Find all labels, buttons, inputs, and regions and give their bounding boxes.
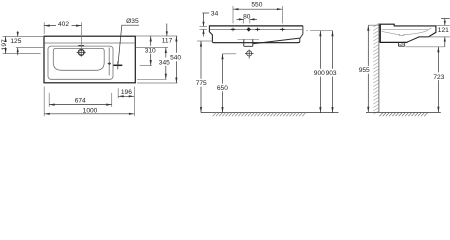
drain extension line up (80, 22, 82, 49)
basin right inner wall line (108, 48, 110, 76)
ext line 723 top (406, 46, 445, 48)
faucet cross marks on deck (231, 27, 285, 31)
right ext line plan bottom (137, 82, 178, 84)
right ext line basin bottom (137, 78, 167, 80)
basin edge tick at faucet level (108, 62, 111, 64)
dim 196 (118, 89, 134, 97)
front floor line (201, 112, 339, 114)
ext tick 80 right (249, 19, 251, 24)
svg-text:723: 723 (433, 74, 444, 81)
left ext line basin top (16, 47, 44, 49)
ext line 121 top (437, 24, 450, 26)
dim 550 (233, 1, 282, 10)
svg-text:117: 117 (162, 37, 173, 44)
svg-text:650: 650 (217, 85, 228, 92)
svg-text:1000: 1000 (83, 107, 98, 114)
dim 310 (145, 36, 156, 66)
ext tick 550 right (281, 6, 283, 23)
ext tick 550 left (232, 6, 234, 23)
rim rear line (45, 42, 135, 44)
bottom ext line right (133, 87, 135, 117)
ledge extension lines left (200, 26, 208, 29)
dim 903 (326, 31, 337, 113)
basin outer rounded rect (48, 46, 113, 79)
svg-text:345: 345 (159, 59, 170, 66)
svg-text:775: 775 (196, 80, 207, 87)
front left profile (209, 26, 212, 43)
wall hatch (373, 24, 379, 115)
front floor hatch (213, 23, 379, 116)
svg-text:903: 903 (326, 70, 337, 77)
bottom ext line left (43, 87, 45, 117)
dim 121 (438, 18, 450, 46)
dim 540 (170, 36, 181, 83)
side drain stub (398, 42, 404, 46)
dim 1000 (44, 107, 134, 115)
plan outer rectangle (44, 36, 135, 83)
ext line 121 bottom (429, 36, 450, 38)
svg-text:310: 310 (145, 47, 156, 54)
dim 125 (10, 31, 21, 55)
ext tick 80 left (243, 19, 245, 24)
svg-text:125: 125 (10, 38, 21, 45)
svg-text:Ø35: Ø35 (126, 18, 139, 25)
dim 955 (359, 25, 370, 112)
svg-text:80: 80 (243, 13, 251, 20)
dim 402 (44, 21, 81, 34)
svg-text:402: 402 (58, 21, 69, 28)
ext line 775 (197, 40, 213, 42)
dim 650 (217, 54, 228, 113)
ext line 955 top (368, 24, 379, 26)
bottom ext tick faucet (117, 88, 119, 98)
bottom ext tick 674 right (111, 93, 113, 107)
svg-text:197: 197 (1, 39, 8, 50)
front bowl inner contour (238, 38, 300, 44)
faucet hole cross (113, 61, 122, 69)
svg-text:540: 540 (170, 55, 181, 62)
svg-text:121: 121 (438, 27, 449, 34)
svg-text:674: 674 (75, 97, 86, 104)
dim 80 (237, 13, 257, 20)
label diameter 35 (118, 18, 139, 64)
svg-text:34: 34 (211, 11, 219, 18)
right ext line faucet (140, 65, 152, 67)
dim 345 (159, 48, 170, 80)
bottom ext tick 674 left (48, 93, 50, 107)
left ext line top (3, 36, 45, 38)
svg-text:955: 955 (359, 67, 370, 74)
side floor line (366, 111, 441, 113)
dim 775 (196, 41, 207, 113)
basin inner rounded rect (53, 48, 104, 70)
front drain symbol (245, 49, 254, 58)
svg-text:550: 550 (251, 1, 262, 8)
dim 197 (1, 37, 8, 54)
side profile outline (379, 24, 436, 42)
left ext line drain (3, 53, 41, 55)
front drain stub (244, 39, 253, 46)
dim 900 (314, 31, 325, 113)
dim 117 (162, 24, 173, 45)
front deck lower edge (210, 28, 303, 30)
svg-text:196: 196 (121, 89, 132, 96)
dim 34 (202, 11, 218, 37)
right ext line basin top (136, 47, 168, 49)
ext line 650 (223, 53, 237, 55)
dim 674 (49, 97, 111, 105)
right ext line top (136, 35, 178, 37)
side floor hatch (380, 113, 428, 116)
drain symbol plan (77, 46, 86, 57)
svg-text:900: 900 (314, 70, 325, 77)
ext line 900 903 (306, 30, 333, 32)
front deck top edge (209, 25, 303, 27)
front right profile (300, 26, 303, 42)
front bowl bottom (212, 42, 299, 43)
side bowl inner contour (382, 28, 432, 35)
dim 723 (433, 47, 444, 112)
